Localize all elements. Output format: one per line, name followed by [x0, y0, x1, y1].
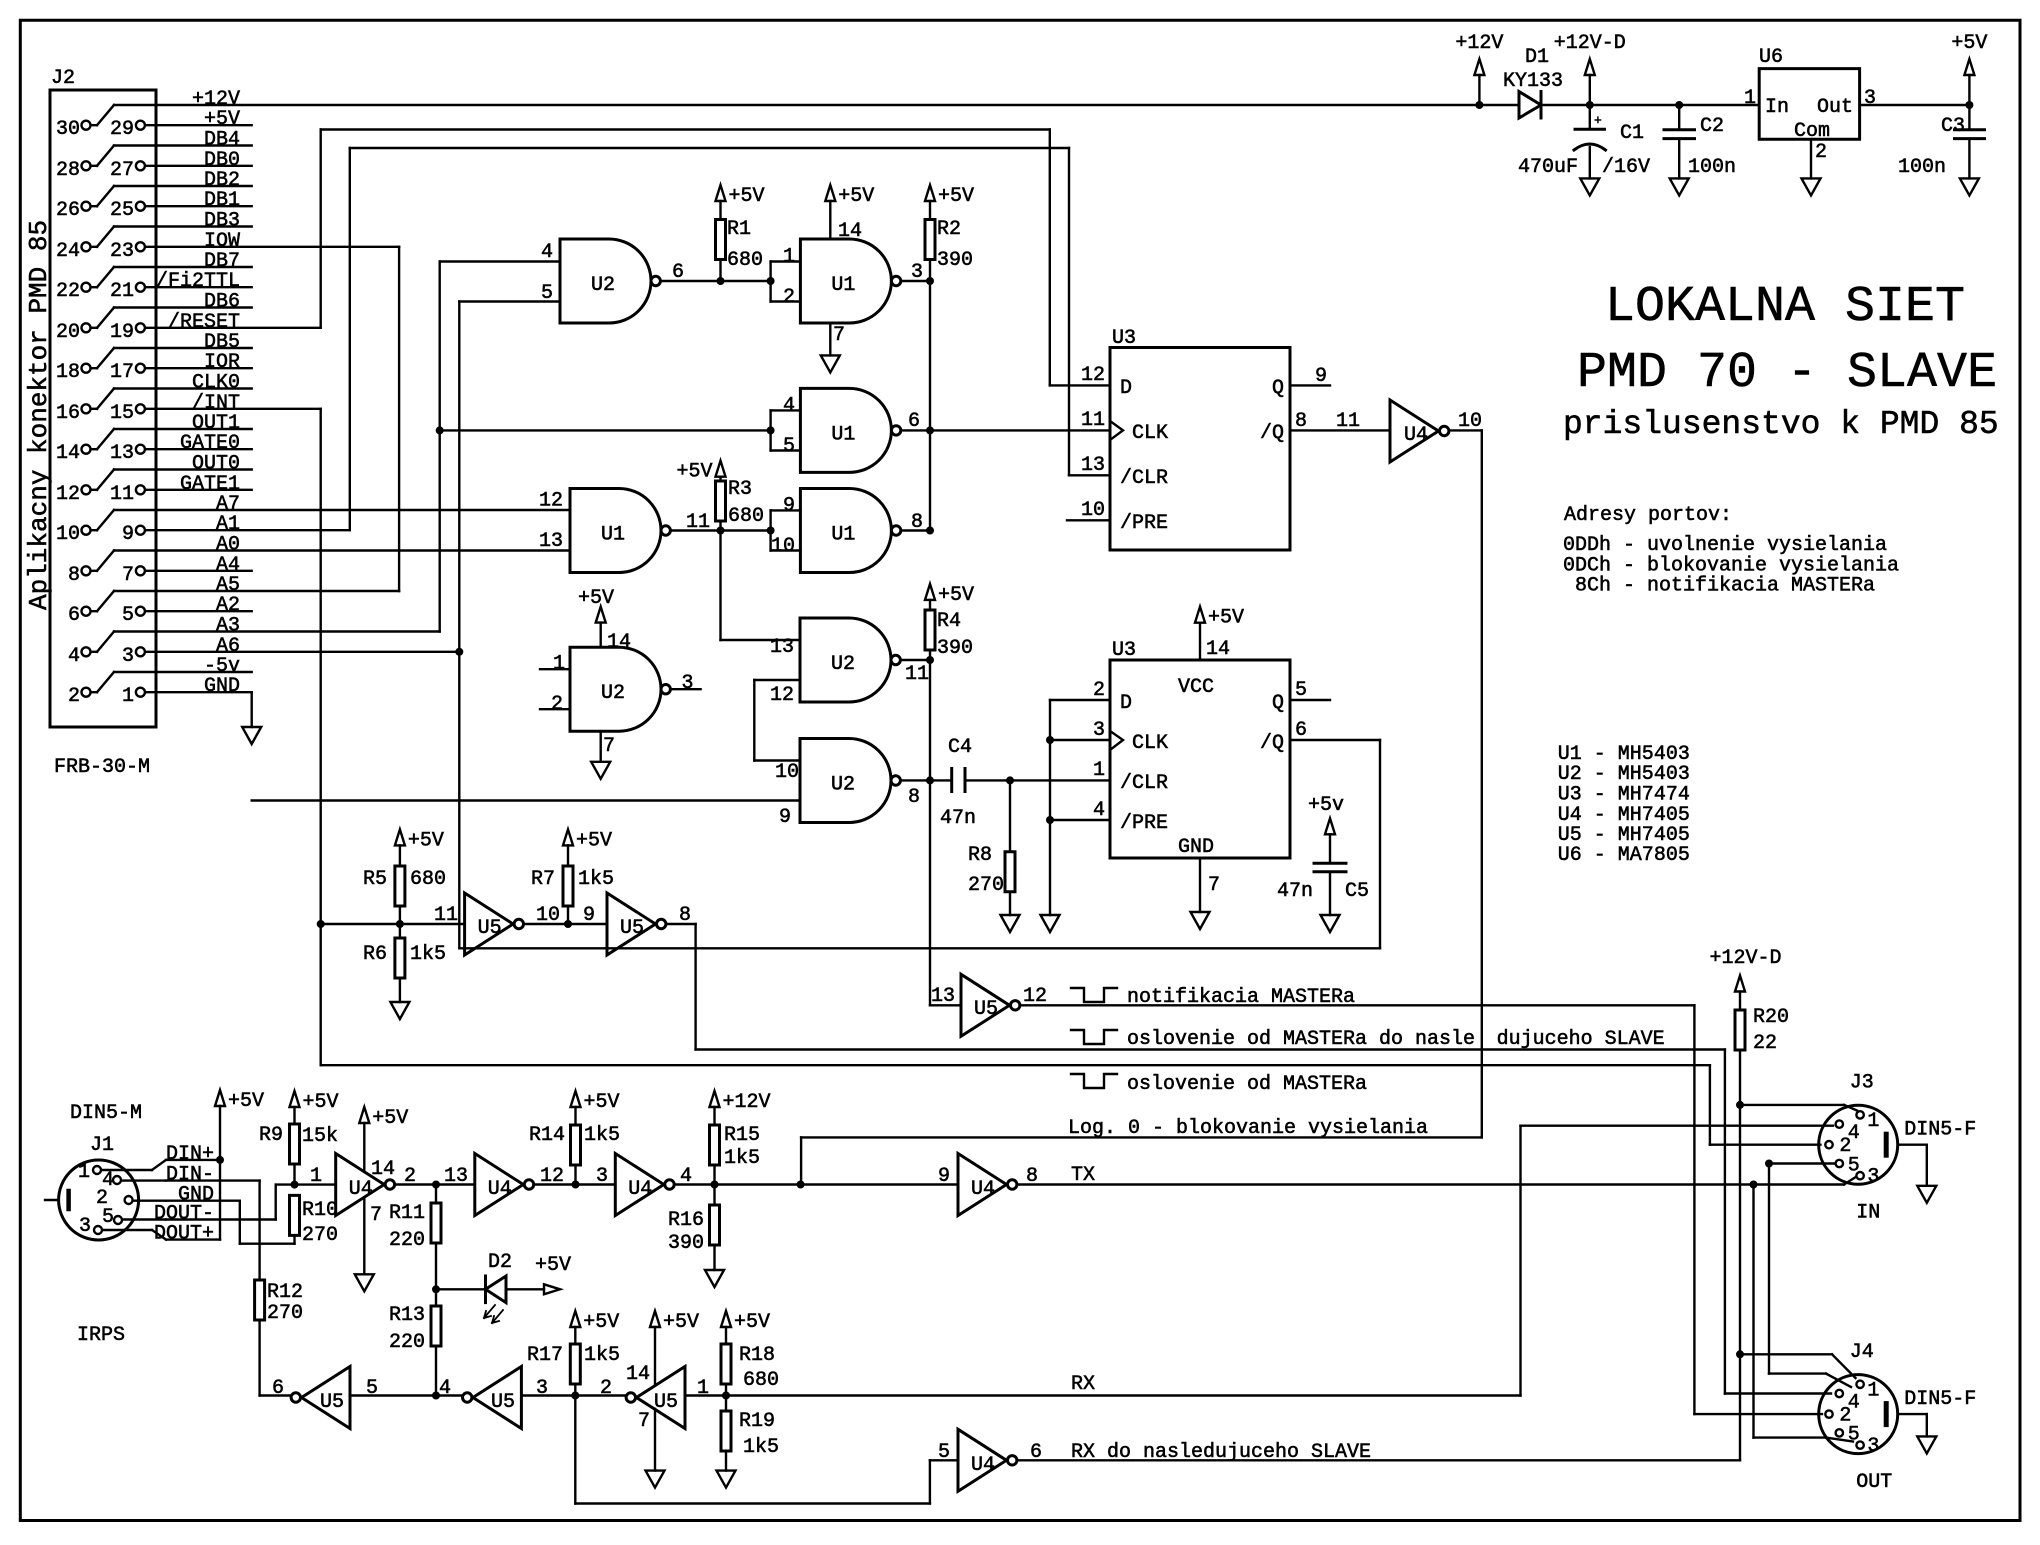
- svg-text:5: 5: [366, 1377, 378, 1400]
- svg-text:+5V: +5V: [663, 1311, 699, 1334]
- svg-text:U5: U5: [620, 917, 644, 940]
- svg-text:TX: TX: [1071, 1164, 1095, 1187]
- svg-text:2: 2: [1815, 141, 1827, 164]
- svg-text:2: 2: [1093, 679, 1105, 702]
- svg-text:100n: 100n: [1688, 156, 1736, 179]
- svg-text:CLK: CLK: [1132, 732, 1168, 755]
- svg-text:R19: R19: [739, 1410, 775, 1433]
- svg-text:13: 13: [444, 1165, 468, 1188]
- svg-text:21: 21: [110, 280, 134, 303]
- svg-text:5: 5: [122, 604, 134, 627]
- svg-text:270: 270: [267, 1302, 303, 1325]
- svg-text:270: 270: [302, 1224, 338, 1247]
- svg-text:+5V: +5V: [228, 1090, 264, 1113]
- svg-text:/PRE: /PRE: [1120, 512, 1168, 535]
- svg-text:220: 220: [389, 1229, 425, 1252]
- svg-text:1: 1: [1744, 87, 1756, 110]
- svg-text:680: 680: [743, 1369, 779, 1392]
- svg-text:R12: R12: [267, 1281, 303, 1304]
- svg-text:+5V: +5V: [1208, 607, 1244, 630]
- svg-text:U1: U1: [831, 524, 855, 547]
- svg-text:6: 6: [272, 1377, 284, 1400]
- svg-text:C4: C4: [948, 736, 972, 759]
- svg-text:1k5: 1k5: [724, 1147, 760, 1170]
- svg-text:1: 1: [783, 246, 795, 269]
- svg-text:R3: R3: [728, 478, 752, 501]
- svg-text:10: 10: [775, 761, 799, 784]
- svg-text:2: 2: [68, 685, 80, 708]
- svg-text:100n: 100n: [1898, 156, 1946, 179]
- svg-text:7: 7: [833, 324, 845, 347]
- svg-text:1k5: 1k5: [410, 943, 446, 966]
- svg-text:U1: U1: [831, 274, 855, 297]
- svg-text:14: 14: [838, 220, 862, 243]
- svg-text:20: 20: [56, 321, 80, 344]
- svg-text:1: 1: [697, 1377, 709, 1400]
- svg-text:2: 2: [783, 286, 795, 309]
- svg-text:+5V: +5V: [729, 185, 765, 208]
- svg-text:+12V-D: +12V-D: [1554, 32, 1626, 55]
- svg-text:+5V: +5V: [408, 829, 444, 852]
- svg-text:15: 15: [110, 402, 134, 425]
- svg-text:CLK: CLK: [1132, 422, 1168, 445]
- svg-text:7: 7: [122, 564, 134, 587]
- svg-text:11: 11: [110, 483, 134, 506]
- svg-text:2: 2: [600, 1377, 612, 1400]
- svg-text:6: 6: [68, 604, 80, 627]
- svg-text:+5V: +5V: [303, 1091, 339, 1114]
- svg-text:3: 3: [536, 1377, 548, 1400]
- svg-text:26: 26: [56, 199, 80, 222]
- svg-text:12: 12: [1023, 985, 1047, 1008]
- svg-text:9: 9: [583, 904, 595, 927]
- svg-text:3: 3: [911, 261, 923, 284]
- svg-text:3: 3: [122, 645, 134, 668]
- svg-text:U4: U4: [971, 1178, 995, 1201]
- svg-text:13: 13: [539, 530, 563, 553]
- svg-text:8Ch - notifikacia MASTERa: 8Ch - notifikacia MASTERa: [1575, 575, 1875, 598]
- svg-text:1k5: 1k5: [743, 1436, 779, 1459]
- svg-text:DIN+: DIN+: [166, 1143, 214, 1166]
- svg-text:8: 8: [911, 511, 923, 534]
- svg-text:470uF: 470uF: [1518, 156, 1578, 179]
- svg-text:11: 11: [686, 511, 710, 534]
- svg-text:DIN5-F: DIN5-F: [1904, 1118, 1976, 1141]
- svg-text:11: 11: [1081, 409, 1105, 432]
- svg-text:2: 2: [551, 693, 563, 716]
- svg-text:Q: Q: [1272, 692, 1284, 715]
- svg-text:+5V: +5V: [372, 1107, 408, 1130]
- svg-text:8: 8: [1295, 410, 1307, 433]
- svg-text:C3: C3: [1941, 115, 1965, 138]
- svg-text:J2: J2: [51, 67, 75, 90]
- svg-text:22: 22: [56, 280, 80, 303]
- svg-text:U5: U5: [491, 1391, 515, 1414]
- svg-text:4: 4: [439, 1377, 451, 1400]
- svg-text:notifikacia MASTERa: notifikacia MASTERa: [1127, 986, 1355, 1009]
- svg-text:19: 19: [110, 321, 134, 344]
- svg-text:12: 12: [770, 684, 794, 707]
- svg-text:12: 12: [1081, 364, 1105, 387]
- svg-text:U6 - MA7805: U6 - MA7805: [1558, 844, 1690, 867]
- svg-text:R2: R2: [937, 218, 961, 241]
- svg-text:9: 9: [1315, 365, 1327, 388]
- svg-text:1: 1: [122, 685, 134, 708]
- svg-text:+5V: +5V: [938, 584, 974, 607]
- svg-text:390: 390: [937, 249, 973, 272]
- svg-text:D2: D2: [488, 1251, 512, 1274]
- svg-text:10: 10: [1081, 499, 1105, 522]
- svg-text:3: 3: [1864, 87, 1876, 110]
- svg-text:/Q: /Q: [1260, 422, 1284, 445]
- svg-text:C1: C1: [1620, 122, 1644, 145]
- svg-text:14: 14: [1206, 638, 1230, 661]
- svg-text:14: 14: [56, 442, 80, 465]
- svg-text:Adresy portov:: Adresy portov:: [1564, 504, 1732, 527]
- svg-text:Com: Com: [1794, 120, 1830, 143]
- svg-text:7: 7: [603, 735, 615, 758]
- svg-text:J3: J3: [1850, 1072, 1874, 1095]
- svg-text:U3: U3: [1112, 327, 1136, 350]
- svg-text:U2: U2: [601, 682, 625, 705]
- svg-text:3: 3: [682, 672, 694, 695]
- svg-text:RX: RX: [1071, 1373, 1095, 1396]
- svg-text:1: 1: [1867, 1379, 1879, 1402]
- svg-text:1k5: 1k5: [584, 1344, 620, 1367]
- svg-text:7: 7: [638, 1410, 650, 1433]
- svg-text:U5: U5: [478, 917, 502, 940]
- svg-text:5: 5: [1295, 679, 1307, 702]
- svg-text:1: 1: [310, 1165, 322, 1188]
- svg-text:/CLR: /CLR: [1120, 467, 1168, 490]
- svg-text:14: 14: [626, 1363, 650, 1386]
- svg-text:R4: R4: [937, 610, 961, 633]
- svg-text:DIN5-M: DIN5-M: [70, 1102, 142, 1125]
- svg-text:390: 390: [937, 637, 973, 660]
- svg-text:R10: R10: [302, 1199, 338, 1222]
- svg-text:9: 9: [938, 1165, 950, 1188]
- svg-text:/Q: /Q: [1260, 732, 1284, 755]
- svg-text:Log. 0 - blokovanie vysielania: Log. 0 - blokovanie vysielania: [1068, 1117, 1428, 1140]
- svg-text:13: 13: [931, 985, 955, 1008]
- svg-text:C2: C2: [1700, 115, 1724, 138]
- svg-text:R9: R9: [259, 1124, 283, 1147]
- svg-text:U6: U6: [1759, 46, 1783, 69]
- svg-text:4: 4: [68, 645, 80, 668]
- svg-text:5: 5: [783, 435, 795, 458]
- svg-text:R11: R11: [389, 1202, 425, 1225]
- svg-text:27: 27: [110, 159, 134, 182]
- svg-text:+5V: +5V: [578, 587, 614, 610]
- svg-text:28: 28: [56, 159, 80, 182]
- svg-text:J4: J4: [1850, 1341, 1874, 1364]
- svg-text:3: 3: [79, 1215, 91, 1238]
- svg-text:U4: U4: [1404, 424, 1428, 447]
- svg-text:6: 6: [908, 410, 920, 433]
- svg-text:6: 6: [1030, 1441, 1042, 1464]
- svg-text:D1: D1: [1525, 46, 1549, 69]
- svg-text:23: 23: [110, 240, 134, 263]
- svg-text:U5: U5: [320, 1391, 344, 1414]
- svg-text:+5V: +5V: [535, 1254, 571, 1277]
- svg-text:9: 9: [122, 523, 134, 546]
- svg-text:+5V: +5V: [576, 829, 612, 852]
- svg-text:R7: R7: [531, 868, 555, 891]
- svg-text:17: 17: [110, 361, 134, 384]
- svg-text:6: 6: [1295, 719, 1307, 742]
- svg-text:J1: J1: [90, 1134, 114, 1157]
- svg-text:U4: U4: [488, 1178, 512, 1201]
- svg-text:1: 1: [1093, 759, 1105, 782]
- svg-text:11: 11: [434, 904, 458, 927]
- svg-text:U3: U3: [1112, 639, 1136, 662]
- svg-text:12: 12: [56, 483, 80, 506]
- svg-text:1: 1: [78, 1161, 90, 1184]
- svg-text:30: 30: [56, 118, 80, 141]
- svg-text:390: 390: [668, 1232, 704, 1255]
- svg-text:25: 25: [110, 199, 134, 222]
- svg-text:14: 14: [371, 1158, 395, 1181]
- svg-text:GND: GND: [1178, 836, 1214, 859]
- svg-text:+5v: +5v: [1308, 794, 1344, 817]
- svg-text:8: 8: [679, 904, 691, 927]
- svg-text:6: 6: [672, 261, 684, 284]
- svg-text:oslovenie od MASTERa do nasle: oslovenie od MASTERa do nasle: [1127, 1028, 1475, 1051]
- svg-text:Out: Out: [1817, 96, 1853, 119]
- svg-text:+12V: +12V: [723, 1091, 771, 1114]
- svg-text:D: D: [1120, 692, 1132, 715]
- svg-text:8: 8: [68, 564, 80, 587]
- svg-text:16: 16: [56, 402, 80, 425]
- svg-text:FRB-30-M: FRB-30-M: [54, 756, 150, 779]
- svg-text:5: 5: [1848, 1154, 1860, 1177]
- svg-text:11: 11: [1336, 410, 1360, 433]
- svg-text:+5V: +5V: [676, 461, 712, 484]
- svg-text:680: 680: [727, 249, 763, 272]
- svg-text:9: 9: [779, 806, 791, 829]
- svg-text:9: 9: [783, 495, 795, 518]
- svg-text:R5: R5: [363, 868, 387, 891]
- svg-text:11: 11: [905, 663, 929, 686]
- svg-text:U1: U1: [831, 423, 855, 446]
- svg-text:24: 24: [56, 240, 80, 263]
- svg-text:R17: R17: [527, 1344, 563, 1367]
- svg-text:DIN5-F: DIN5-F: [1904, 1388, 1976, 1411]
- svg-text:4: 4: [1093, 799, 1105, 822]
- svg-text:U1: U1: [601, 524, 625, 547]
- svg-text:14: 14: [607, 631, 631, 654]
- svg-text:LOKALNA SIET: LOKALNA SIET: [1605, 279, 1965, 336]
- svg-text:10: 10: [56, 523, 80, 546]
- svg-text:22: 22: [1753, 1032, 1777, 1055]
- svg-text:In: In: [1765, 96, 1789, 119]
- svg-text:PMD 70 - SLAVE: PMD 70 - SLAVE: [1577, 345, 1997, 402]
- svg-text:VCC: VCC: [1178, 676, 1214, 699]
- svg-text:3: 3: [1093, 719, 1105, 742]
- svg-text:5: 5: [938, 1441, 950, 1464]
- svg-text:DOUT+: DOUT+: [154, 1223, 214, 1246]
- svg-text:R1: R1: [727, 218, 751, 241]
- svg-text:U4: U4: [349, 1178, 373, 1201]
- svg-text:220: 220: [389, 1331, 425, 1354]
- svg-text:+5V: +5V: [583, 1311, 619, 1334]
- svg-text:D: D: [1120, 377, 1132, 400]
- svg-text:/CLR: /CLR: [1120, 772, 1168, 795]
- svg-text:+5V: +5V: [1951, 32, 1987, 55]
- svg-text:+12V-D: +12V-D: [1710, 947, 1782, 970]
- svg-text:RX do nasledujuceho SLAVE: RX do nasledujuceho SLAVE: [1071, 1441, 1371, 1464]
- svg-text:13: 13: [1081, 454, 1105, 477]
- svg-text:47n: 47n: [1277, 880, 1313, 903]
- svg-text:R15: R15: [724, 1124, 760, 1147]
- svg-text:13: 13: [770, 636, 794, 659]
- svg-text:12: 12: [539, 490, 563, 513]
- svg-text:OUT: OUT: [1856, 1471, 1892, 1494]
- svg-text:680: 680: [410, 868, 446, 891]
- svg-text:+12V: +12V: [1455, 32, 1503, 55]
- svg-text:+5V: +5V: [734, 1311, 770, 1334]
- svg-text:U5: U5: [654, 1391, 678, 1414]
- svg-text:+5V: +5V: [584, 1091, 620, 1114]
- svg-text:+5V: +5V: [838, 185, 874, 208]
- svg-text:5: 5: [541, 282, 553, 305]
- svg-text:dujuceho SLAVE: dujuceho SLAVE: [1497, 1028, 1665, 1051]
- svg-text:U5: U5: [974, 998, 998, 1021]
- svg-text:GND: GND: [204, 675, 240, 698]
- svg-text:3: 3: [1867, 1166, 1879, 1189]
- svg-text:1: 1: [553, 653, 565, 676]
- svg-text:2: 2: [404, 1165, 416, 1188]
- svg-text:U2: U2: [831, 653, 855, 676]
- svg-text:oslovenie od MASTERa: oslovenie od MASTERa: [1127, 1073, 1367, 1096]
- svg-text:8: 8: [1026, 1165, 1038, 1188]
- svg-text:R6: R6: [363, 943, 387, 966]
- svg-text:IRPS: IRPS: [77, 1324, 125, 1347]
- svg-text:/16V: /16V: [1602, 156, 1650, 179]
- svg-text:R18: R18: [739, 1344, 775, 1367]
- svg-text:R16: R16: [668, 1209, 704, 1232]
- svg-text:10: 10: [536, 904, 560, 927]
- svg-text:4: 4: [783, 395, 795, 418]
- svg-text:4: 4: [680, 1165, 692, 1188]
- svg-text:29: 29: [110, 118, 134, 141]
- svg-text:47n: 47n: [940, 807, 976, 830]
- svg-text:3: 3: [1867, 1435, 1879, 1458]
- svg-text:+: +: [1594, 113, 1602, 128]
- svg-text:R8: R8: [968, 844, 992, 867]
- svg-text:270: 270: [968, 874, 1004, 897]
- svg-text:12: 12: [540, 1165, 564, 1188]
- svg-text:+5V: +5V: [938, 185, 974, 208]
- svg-text:Q: Q: [1272, 377, 1284, 400]
- svg-text:1k5: 1k5: [584, 1124, 620, 1147]
- svg-text:prislusenstvo k PMD 85: prislusenstvo k PMD 85: [1563, 406, 1999, 443]
- svg-text:U4: U4: [628, 1178, 652, 1201]
- svg-text:U2: U2: [591, 274, 615, 297]
- svg-text:15k: 15k: [302, 1125, 338, 1148]
- svg-text:5: 5: [102, 1206, 114, 1229]
- svg-text:7: 7: [1208, 874, 1220, 897]
- svg-text:10: 10: [1458, 410, 1482, 433]
- svg-text:U2: U2: [831, 774, 855, 797]
- svg-text:U4: U4: [971, 1454, 995, 1477]
- svg-text:Aplikacny konektor PMD 85: Aplikacny konektor PMD 85: [24, 220, 54, 610]
- svg-text:C5: C5: [1345, 880, 1369, 903]
- svg-text:1: 1: [1867, 1110, 1879, 1133]
- svg-text:R13: R13: [389, 1304, 425, 1327]
- svg-text:KY133: KY133: [1503, 70, 1563, 93]
- svg-text:IN: IN: [1856, 1202, 1880, 1225]
- svg-text:R14: R14: [529, 1124, 565, 1147]
- svg-text:5: 5: [1848, 1424, 1860, 1447]
- svg-text:680: 680: [728, 505, 764, 528]
- svg-text:3: 3: [596, 1165, 608, 1188]
- svg-text:8: 8: [908, 786, 920, 809]
- svg-text:1k5: 1k5: [578, 868, 614, 891]
- svg-text:/PRE: /PRE: [1120, 812, 1168, 835]
- svg-text:10: 10: [771, 535, 795, 558]
- svg-text:13: 13: [110, 442, 134, 465]
- svg-text:4: 4: [541, 241, 553, 264]
- svg-text:7: 7: [370, 1204, 382, 1227]
- svg-text:R20: R20: [1753, 1006, 1789, 1029]
- svg-text:18: 18: [56, 361, 80, 384]
